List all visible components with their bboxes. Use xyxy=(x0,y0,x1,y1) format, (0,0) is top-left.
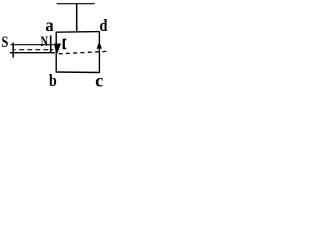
dashed axis line inside magnet xyxy=(19,49,53,51)
svg-text:b: b xyxy=(49,72,57,87)
svg-text:a: a xyxy=(45,14,54,35)
magnet left end cap xyxy=(12,43,14,58)
svg-text:N: N xyxy=(41,33,48,49)
dashed axis short dash at magnet left xyxy=(14,49,15,51)
suspension thread xyxy=(76,3,78,32)
bracket mark inside loop xyxy=(63,39,67,50)
dashed axis line through loop xyxy=(59,51,107,53)
magnet right pole plate xyxy=(50,36,52,53)
magnet top edge xyxy=(11,44,54,46)
svg-text:d: d xyxy=(100,17,108,35)
magnet bottom edge xyxy=(10,52,55,54)
current arrowhead down on left edge xyxy=(54,44,61,54)
current arrowhead up on right edge xyxy=(97,41,102,48)
loop abcd top edge (a-d) xyxy=(56,31,100,34)
ceiling support bar xyxy=(57,3,95,5)
loop abcd bottom edge (b-c) xyxy=(56,71,100,74)
loop abcd right edge (d-c) xyxy=(98,32,100,73)
loop abcd left edge (a-b) xyxy=(55,32,57,72)
svg-text:c: c xyxy=(95,70,103,87)
svg-text:S: S xyxy=(2,34,9,52)
